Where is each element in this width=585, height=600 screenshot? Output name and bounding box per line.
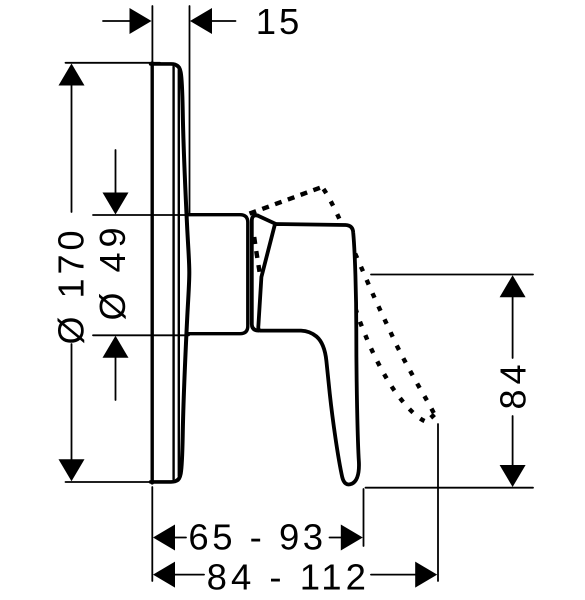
dimension 170: label — [50, 226, 91, 344]
escutcheon plate front bulge silhouette — [177, 66, 190, 481]
dimension 84: bottom arrowhead — [500, 465, 526, 487]
dimension 15: left leader line — [103, 20, 146, 22]
dimension 15: extension line left — [151, 6, 153, 63]
dimension 84: extension line bottom — [366, 487, 534, 489]
dimension 15: label — [256, 1, 303, 42]
dimension 15: left arrowhead — [130, 8, 152, 34]
dimension 170: extension line bottom — [66, 481, 161, 483]
escutcheon plate bottom edge — [151, 480, 177, 482]
dimension 49: leader line below — [115, 357, 117, 400]
dimension 49: top arrowhead — [103, 193, 129, 215]
dimension 170: extension line top — [66, 62, 161, 64]
svg-text:65 - 93: 65 - 93 — [188, 516, 326, 557]
dimension 65-93: label — [188, 516, 326, 557]
phantom handle lower edge near hub (dotted) — [254, 237, 260, 277]
dimension 15: right arrowhead — [190, 8, 212, 34]
dimension 84-112: label — [207, 557, 370, 598]
dimension 84-112: extension line right — [437, 424, 439, 581]
dimension 65-93: dimension line left segment — [157, 537, 186, 539]
dimension 84-112: dimension line right segment — [371, 574, 432, 576]
svg-text:84: 84 — [493, 359, 534, 409]
dimension 84: label — [493, 359, 534, 409]
dimension 65-93: left arrowhead — [153, 525, 175, 551]
dimension 84: dimension line upper segment — [512, 279, 514, 358]
phantom handle inner sweep (dotted) — [355, 305, 425, 421]
phantom handle upper edge (dotted) — [250, 187, 322, 213]
phantom handle outer sweep (dotted) — [324, 189, 435, 415]
dimension 170: dimension line lower segment — [71, 344, 73, 477]
dimension 84: dimension line lower segment — [512, 416, 514, 483]
svg-text:15: 15 — [256, 1, 303, 42]
escutcheon plate back edge — [150, 63, 153, 483]
lever handle body — [258, 224, 359, 485]
dimension 65-93: extension line right — [363, 489, 365, 546]
dimension 49: extension line top — [93, 214, 189, 216]
dimension 15: extension line right — [189, 6, 191, 214]
sleeve — [188, 215, 248, 334]
svg-text:84 - 112: 84 - 112 — [207, 557, 370, 598]
dimension 84: top arrowhead — [500, 275, 526, 297]
svg-text:Ø 170: Ø 170 — [50, 226, 91, 344]
dimension 84-112: right arrowhead — [415, 562, 437, 588]
dimension 84-112: left arrowhead — [153, 562, 175, 588]
dimension 84: extension line top — [371, 274, 533, 276]
dimension 49: extension line bottom — [93, 334, 189, 336]
dimension 65-93: dimension line right segment — [330, 537, 359, 539]
dimension 170: dimension line upper segment — [71, 68, 73, 212]
dimension 49: label — [92, 222, 133, 320]
escutcheon plate front face line — [172, 67, 174, 480]
dimension 15: right leader line — [196, 20, 236, 22]
svg-text:Ø 49: Ø 49 — [92, 222, 133, 320]
dimension 65-93: extension line left — [151, 487, 153, 581]
dimension 170: bottom arrowhead — [59, 459, 85, 481]
dimension 49: bottom arrowhead — [103, 336, 129, 358]
handle neck top line — [258, 216, 276, 224]
handle hub back edge — [252, 215, 259, 330]
escutcheon plate inner rim line — [178, 70, 180, 476]
dimension 49: leader line above — [115, 150, 117, 194]
dimension 65-93: right arrowhead — [341, 525, 363, 551]
phantom handle tip (dotted) — [427, 415, 435, 422]
escutcheon plate top edge — [151, 64, 177, 66]
dimension 170: top arrowhead — [59, 64, 85, 86]
dimension 84-112: dimension line left segment — [157, 574, 204, 576]
